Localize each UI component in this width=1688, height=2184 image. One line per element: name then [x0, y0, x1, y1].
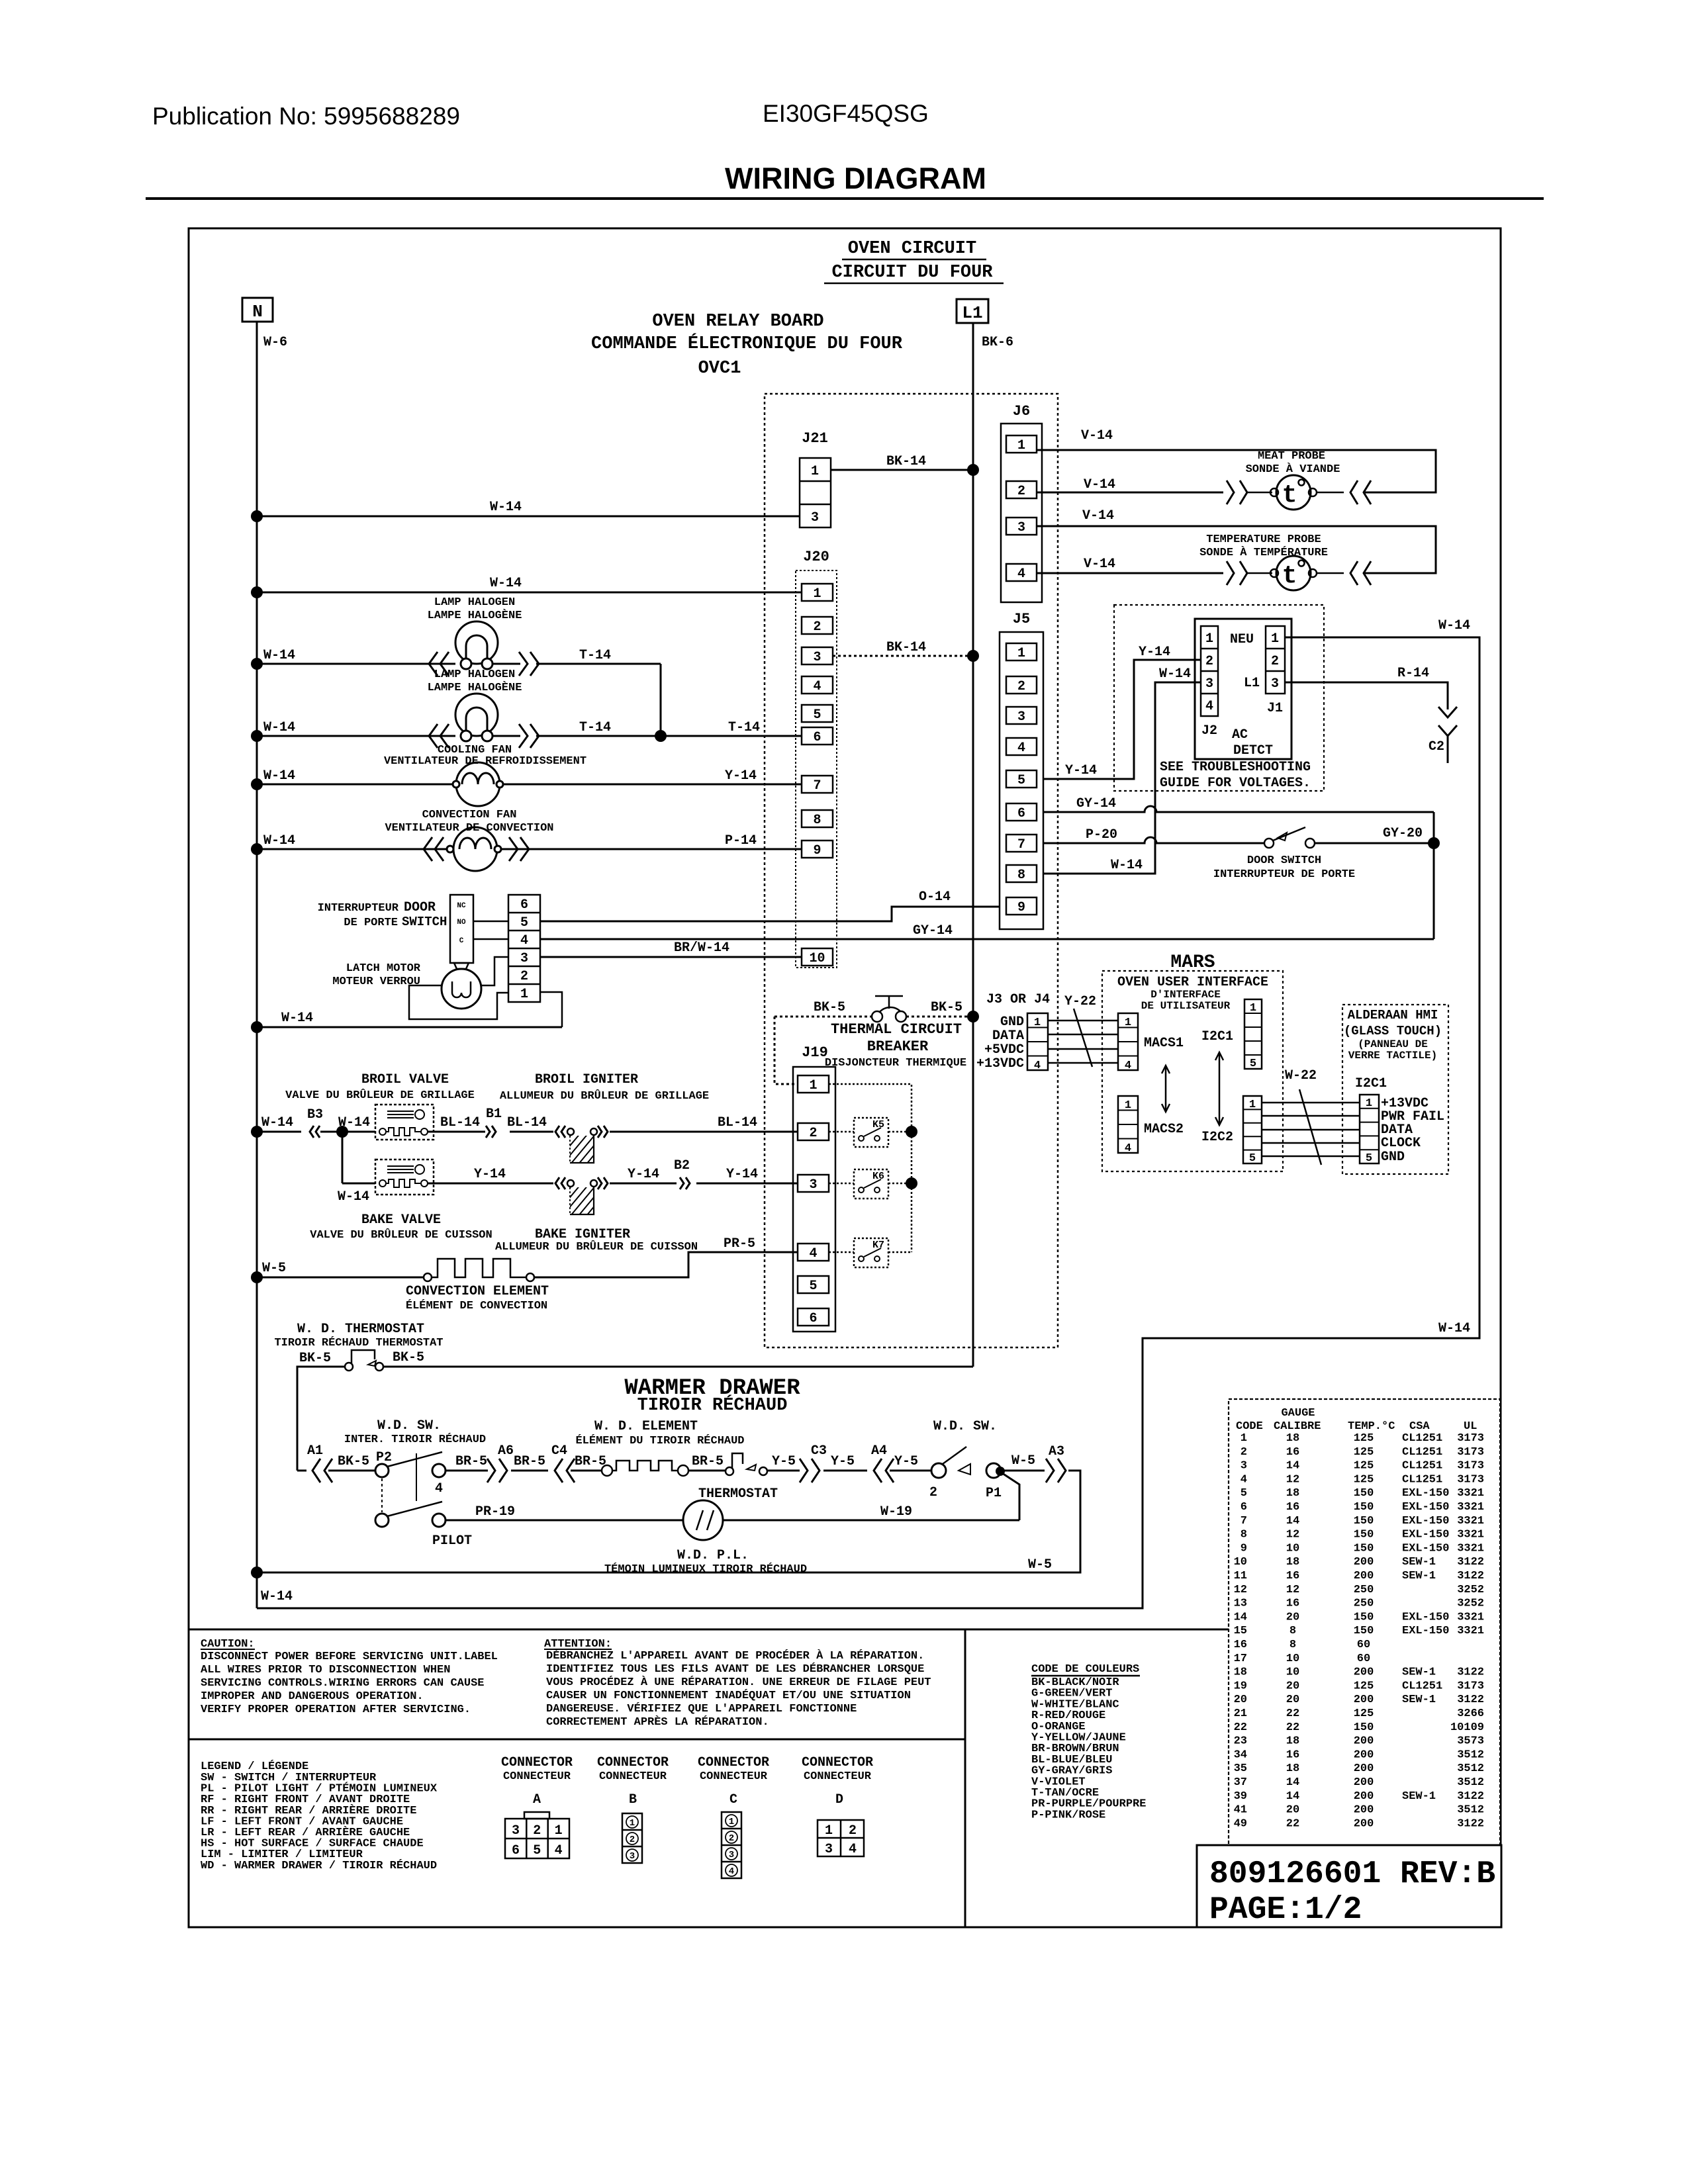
svg-text:J20: J20 [803, 549, 829, 565]
wire W-5 return [257, 1471, 1080, 1572]
svg-text:150: 150 [1354, 1611, 1374, 1623]
svg-text:TÉMOIN LUMINEUX TIROIR RÉCHAUD: TÉMOIN LUMINEUX TIROIR RÉCHAUD [604, 1563, 807, 1576]
svg-text:1: 1 [1249, 1099, 1256, 1111]
wire door switch net vertical [1433, 812, 1435, 939]
connector chevrons temp probe right [1350, 561, 1358, 585]
wire BK-5 thermal breaker right [906, 1016, 973, 1018]
svg-text:GUIDE FOR VOLTAGES.: GUIDE FOR VOLTAGES. [1160, 776, 1311, 791]
svg-text:BAKE VALVE: BAKE VALVE [361, 1212, 441, 1228]
svg-text:OVC1: OVC1 [698, 359, 741, 379]
wire T-14 vertical drop [660, 664, 662, 736]
svg-text:BK-5: BK-5 [814, 1000, 845, 1015]
motor M cooling fan symbol [456, 762, 500, 806]
svg-text:T-14: T-14 [579, 648, 611, 663]
svg-text:125: 125 [1354, 1446, 1374, 1459]
svg-text:CONVECTION FAN: CONVECTION FAN [422, 809, 517, 821]
arrow I2C1 I2C2 [1219, 1054, 1221, 1124]
svg-text:1: 1 [729, 1817, 734, 1827]
svg-text:CONNECTEUR: CONNECTEUR [804, 1770, 872, 1783]
svg-text:A3: A3 [1049, 1444, 1064, 1459]
svg-text:N: N [252, 302, 263, 322]
svg-text:18: 18 [1286, 1735, 1299, 1748]
junction T-14 lamp rows [655, 730, 667, 742]
AC detector board box [1195, 619, 1291, 759]
svg-text:OVEN CIRCUIT: OVEN CIRCUIT [848, 239, 976, 259]
svg-text:THERMOSTAT: THERMOSTAT [698, 1486, 778, 1502]
svg-text:35: 35 [1234, 1762, 1247, 1775]
svg-text:125: 125 [1354, 1460, 1374, 1473]
svg-text:DISCONNECT POWER BEFORE SERVIC: DISCONNECT POWER BEFORE SERVICING UNIT.L… [201, 1651, 498, 1663]
svg-text:2: 2 [929, 1485, 937, 1500]
wire O-14 terminal 5 to J5 pin9 [540, 907, 1000, 921]
svg-text:2: 2 [849, 1823, 857, 1839]
node L1 terminal [957, 299, 988, 323]
svg-text:V-14: V-14 [1084, 477, 1115, 492]
svg-text:VALVE DU BRÛLEUR DE CUISSON: VALVE DU BRÛLEUR DE CUISSON [310, 1228, 492, 1242]
svg-text:15: 15 [1234, 1625, 1247, 1637]
connector chevrons A1 [312, 1459, 320, 1482]
svg-text:SONDE À TEMPÉRATURE: SONDE À TEMPÉRATURE [1199, 546, 1328, 559]
temperature probe sensor symbol [1247, 572, 1272, 574]
svg-text:VALVE DU BRÛLEUR DE GRILLAGE: VALVE DU BRÛLEUR DE GRILLAGE [285, 1089, 475, 1102]
svg-text:39: 39 [1234, 1790, 1247, 1803]
svg-text:5: 5 [809, 1279, 817, 1294]
svg-text:VENTILATEUR DE REFROIDISSEMENT: VENTILATEUR DE REFROIDISSEMENT [384, 755, 586, 768]
svg-text:3573: 3573 [1457, 1735, 1484, 1748]
svg-text:3: 3 [1017, 709, 1025, 725]
wire V-14 J6 pin3 temp probe loop [1037, 526, 1436, 573]
connector I2C1 [1244, 999, 1262, 1069]
gauge table [1229, 1399, 1500, 1853]
wire latch motor to terminal 1 bracket [409, 985, 508, 1019]
svg-text:A: A [533, 1792, 541, 1807]
svg-text:41: 41 [1234, 1804, 1247, 1817]
svg-text:IMPROPER AND DANGEROUS OPERATI: IMPROPER AND DANGEROUS OPERATION. [201, 1690, 424, 1703]
wire V-14 J6 pin4 to temp probe [1037, 572, 1223, 574]
wire BR-5 to WD element [571, 1470, 602, 1472]
svg-text:V-14: V-14 [1081, 428, 1113, 443]
svg-text:150: 150 [1354, 1625, 1374, 1637]
connector chevrons convection right [509, 837, 518, 861]
thermal circuit breaker symbol [872, 1011, 882, 1022]
svg-text:2: 2 [729, 1833, 734, 1844]
svg-text:3: 3 [813, 650, 821, 665]
wire door C to terminal 4 [473, 938, 508, 940]
svg-text:J2: J2 [1201, 723, 1217, 739]
svg-text:SEW-1: SEW-1 [1402, 1666, 1436, 1679]
svg-text:NC: NC [457, 902, 466, 910]
svg-text:14: 14 [1286, 1790, 1299, 1803]
svg-text:CONNECTOR: CONNECTOR [698, 1755, 769, 1770]
J5 pin 1 [1006, 643, 1037, 660]
svg-text:A4: A4 [871, 1443, 887, 1459]
junction BK-5 L1 [967, 1011, 979, 1023]
svg-text:W-14: W-14 [261, 1115, 293, 1130]
connector chevrons meat probe left [1227, 480, 1234, 504]
broil igniter symbol [567, 1128, 574, 1135]
arrow to C2 [1438, 707, 1457, 717]
svg-text:Y-14: Y-14 [628, 1167, 659, 1182]
svg-text:D: D [835, 1792, 843, 1807]
connector chevrons bake igniter right [598, 1177, 602, 1189]
junction J20 pin3 L1 [967, 650, 979, 662]
arrow MACS1 MACS2 [1165, 1067, 1167, 1111]
svg-text:VERRE TACTILE): VERRE TACTILE) [1348, 1050, 1437, 1062]
svg-text:+5VDC: +5VDC [984, 1042, 1024, 1058]
svg-text:J19: J19 [802, 1044, 828, 1061]
svg-text:Y-14: Y-14 [726, 1167, 758, 1182]
svg-text:3512: 3512 [1457, 1762, 1484, 1775]
svg-text:V-14: V-14 [1084, 557, 1115, 572]
svg-text:BK-14: BK-14 [886, 454, 926, 469]
svg-text:6: 6 [1017, 806, 1025, 821]
svg-text:+13VDC: +13VDC [976, 1056, 1024, 1071]
svg-text:150: 150 [1354, 1501, 1374, 1514]
main border frame [189, 228, 1501, 1927]
svg-text:150: 150 [1354, 1721, 1374, 1734]
junction J21-L1 [967, 464, 979, 476]
wire BK-6 L1 vertical [972, 323, 974, 1367]
wire Y-14 bake igniter out [610, 1183, 677, 1185]
svg-text:3122: 3122 [1457, 1817, 1484, 1830]
svg-text:9: 9 [813, 843, 821, 858]
svg-text:B2: B2 [674, 1158, 690, 1173]
svg-text:12: 12 [1234, 1584, 1247, 1596]
svg-text:V-14: V-14 [1082, 508, 1114, 523]
connector A drawing [524, 1812, 549, 1819]
svg-text:ÉLÉMENT DE CONVECTION: ÉLÉMENT DE CONVECTION [406, 1299, 547, 1312]
svg-text:5: 5 [1250, 1058, 1256, 1070]
svg-text:8: 8 [1241, 1529, 1247, 1541]
svg-text:MACS2: MACS2 [1144, 1122, 1184, 1137]
svg-text:SEW-1: SEW-1 [1402, 1790, 1436, 1803]
svg-text:3: 3 [630, 1851, 635, 1862]
svg-text:3: 3 [729, 1850, 734, 1860]
svg-text:EXL-150: EXL-150 [1402, 1625, 1449, 1637]
svg-text:PR-19: PR-19 [475, 1504, 515, 1520]
svg-text:BREAKER: BREAKER [867, 1038, 929, 1055]
svg-text:4: 4 [1125, 1142, 1131, 1155]
svg-text:1: 1 [811, 464, 819, 479]
svg-text:DE UTILISATEUR: DE UTILISATEUR [1141, 1000, 1231, 1012]
svg-text:11: 11 [1234, 1570, 1247, 1582]
svg-text:WIRING DIAGRAM: WIRING DIAGRAM [725, 161, 986, 195]
svg-text:TEMP.°C: TEMP.°C [1348, 1420, 1395, 1433]
divider vertical bottom [964, 1629, 966, 1927]
svg-text:3: 3 [825, 1842, 833, 1857]
connector chevrons A4 [874, 1459, 882, 1482]
svg-text:W-14: W-14 [263, 648, 295, 663]
convection element symbol [424, 1273, 432, 1281]
svg-text:SEW-1: SEW-1 [1402, 1556, 1436, 1569]
connector chevrons A6 [487, 1459, 495, 1482]
svg-text:23: 23 [1234, 1735, 1247, 1748]
svg-text:W-14: W-14 [263, 833, 295, 848]
svg-text:150: 150 [1354, 1515, 1374, 1527]
svg-text:1: 1 [1017, 438, 1025, 453]
slash W-22 bundle [1299, 1089, 1321, 1165]
wire R-14 J1 pin3 to C2 [1285, 682, 1448, 709]
svg-text:J6: J6 [1013, 403, 1030, 420]
svg-text:3321: 3321 [1457, 1501, 1484, 1514]
wire P-20 J5 pin7 with hop to door switch [1043, 837, 1264, 843]
J20 pin 1 [802, 584, 833, 601]
svg-text:BK-5: BK-5 [393, 1350, 424, 1365]
revision box [1197, 1845, 1501, 1927]
connector chevrons C4 [555, 1459, 563, 1482]
svg-text:20: 20 [1286, 1611, 1299, 1623]
wire W-14 bus to J20 pin1 [257, 592, 802, 594]
svg-text:200: 200 [1354, 1666, 1374, 1679]
svg-text:22: 22 [1234, 1721, 1247, 1734]
svg-text:W-14: W-14 [261, 1589, 293, 1604]
svg-text:4: 4 [1241, 1473, 1247, 1486]
wire PR-19 pilot to lamp [445, 1520, 683, 1522]
svg-text:Y-14: Y-14 [474, 1167, 506, 1182]
svg-text:MACS1: MACS1 [1144, 1036, 1184, 1051]
svg-text:I2C1: I2C1 [1201, 1029, 1233, 1044]
WD switch contact P1 [986, 1463, 1001, 1478]
svg-text:2: 2 [520, 969, 528, 984]
svg-text:5: 5 [533, 1843, 541, 1858]
svg-text:6: 6 [1241, 1501, 1247, 1514]
svg-text:8: 8 [1017, 868, 1025, 883]
connector chevrons bake igniter [555, 1177, 559, 1189]
svg-text:OVEN USER INTERFACE: OVEN USER INTERFACE [1117, 975, 1268, 990]
svg-text:4: 4 [809, 1246, 817, 1261]
svg-text:2: 2 [809, 1126, 817, 1141]
svg-text:809126601 REV:B: 809126601 REV:B [1209, 1856, 1495, 1892]
svg-text:16: 16 [1234, 1639, 1247, 1651]
svg-text:VOUS PROCÉDEZ À UNE RÉPARATION: VOUS PROCÉDEZ À UNE RÉPARATION. UNE ERRE… [546, 1676, 931, 1689]
svg-text:8: 8 [1289, 1639, 1296, 1651]
svg-text:W-5: W-5 [262, 1261, 286, 1276]
svg-text:UL: UL [1464, 1420, 1477, 1433]
relay output bus to J19 pin1 [829, 1084, 912, 1252]
svg-text:I2C2: I2C2 [1201, 1130, 1233, 1145]
svg-text:14: 14 [1234, 1611, 1247, 1623]
svg-text:Y-14: Y-14 [1139, 645, 1170, 660]
svg-text:1: 1 [1017, 646, 1025, 661]
svg-text:3122: 3122 [1457, 1666, 1484, 1679]
door switch symbol [1264, 839, 1274, 848]
svg-text:10: 10 [809, 951, 825, 966]
svg-text:60: 60 [1357, 1653, 1370, 1665]
svg-text:EI30GF45QSG: EI30GF45QSG [763, 100, 929, 127]
wire W-14 to bake valve [342, 1183, 375, 1185]
wire GY-20 door switch to net [1315, 842, 1434, 844]
J20 pin 5 [802, 705, 833, 722]
svg-text:4: 4 [1034, 1060, 1041, 1072]
svg-text:CAUSER UN FONCTIONNEMENT INADÉ: CAUSER UN FONCTIONNEMENT INADÉQUAT ET/OU… [546, 1689, 911, 1702]
wire BR-5 element to thermostat [688, 1470, 726, 1472]
svg-text:2: 2 [1017, 484, 1025, 499]
J19 pin 1 [798, 1075, 829, 1093]
svg-text:MARS: MARS [1170, 952, 1215, 973]
svg-text:3: 3 [811, 510, 819, 525]
wire T-14 lamp1 to corner [536, 663, 661, 665]
wire door NO to terminal 5 [473, 921, 508, 923]
svg-text:(GLASS TOUCH): (GLASS TOUCH) [1344, 1024, 1442, 1038]
connector chevrons B1 [486, 1126, 490, 1138]
switch P2 lower [375, 1514, 389, 1527]
J20 pin 2 [802, 617, 833, 634]
svg-text:A6: A6 [498, 1443, 514, 1459]
svg-text:LEGEND / LÉGENDE: LEGEND / LÉGENDE [201, 1760, 308, 1773]
svg-text:Y-14: Y-14 [725, 768, 757, 784]
wire W-19 lamp to P1 [723, 1520, 1019, 1522]
J6 pin 2 [1006, 481, 1037, 498]
wire J19 pin2 to K5 [829, 1131, 854, 1133]
svg-text:INTERRUPTEUR: INTERRUPTEUR [318, 902, 399, 915]
svg-text:1: 1 [630, 1818, 635, 1829]
svg-text:DATA: DATA [992, 1028, 1024, 1044]
wire lamp1 right [492, 663, 520, 665]
svg-text:4: 4 [520, 933, 528, 948]
svg-text:3173: 3173 [1457, 1680, 1484, 1692]
latch motor symbol [454, 963, 469, 969]
svg-text:7: 7 [1241, 1515, 1247, 1527]
svg-text:4: 4 [849, 1842, 857, 1857]
svg-text:W-14: W-14 [490, 576, 522, 591]
svg-text:125: 125 [1354, 1432, 1374, 1445]
connector chevrons A3 [1046, 1459, 1054, 1482]
svg-text:1: 1 [1125, 1099, 1131, 1112]
svg-text:ALL WIRES PRIOR TO DISCONNECTI: ALL WIRES PRIOR TO DISCONNECTION WHEN [201, 1664, 450, 1676]
svg-text:18: 18 [1286, 1432, 1299, 1445]
WD thermostat symbol [345, 1363, 353, 1371]
wire K7 to relay bus [888, 1251, 912, 1253]
svg-text:P2: P2 [376, 1450, 392, 1465]
wire Y-5 thermostat out [767, 1470, 800, 1472]
svg-text:INTERRUPTEUR DE PORTE: INTERRUPTEUR DE PORTE [1213, 868, 1355, 881]
svg-text:2: 2 [1205, 654, 1213, 669]
junction K5 bus [906, 1126, 917, 1138]
svg-text:W-14: W-14 [281, 1011, 313, 1026]
svg-text:BROIL IGNITER: BROIL IGNITER [535, 1072, 638, 1087]
svg-text:22: 22 [1286, 1721, 1299, 1734]
svg-text:CL1251: CL1251 [1402, 1432, 1442, 1445]
svg-text:J5: J5 [1013, 611, 1030, 627]
svg-text:12: 12 [1286, 1529, 1299, 1541]
connector chevrons lamp2 left [429, 724, 438, 748]
junction bus J20 pin1 [251, 586, 263, 598]
svg-text:BK-5: BK-5 [299, 1351, 331, 1366]
door switch terminal strip [508, 895, 540, 1002]
svg-text:19: 19 [1234, 1680, 1247, 1692]
svg-text:Y-22: Y-22 [1064, 994, 1096, 1009]
svg-text:7: 7 [813, 778, 821, 794]
svg-text:MEAT PROBE: MEAT PROBE [1258, 450, 1325, 463]
switch P2 upper [375, 1464, 389, 1477]
svg-text:125: 125 [1354, 1680, 1374, 1692]
svg-text:GY-14: GY-14 [913, 923, 953, 938]
svg-text:3321: 3321 [1457, 1487, 1484, 1500]
svg-text:A1: A1 [307, 1443, 323, 1459]
svg-text:GND: GND [1000, 1015, 1024, 1030]
svg-text:TEMPERATURE PROBE: TEMPERATURE PROBE [1206, 533, 1321, 546]
connector chevrons convection left [424, 837, 432, 861]
svg-text:W-14: W-14 [1159, 666, 1191, 682]
separator legend section [189, 1739, 965, 1741]
svg-text:W.D. SW.: W.D. SW. [377, 1418, 441, 1433]
J19 pin 3 [798, 1175, 829, 1192]
svg-text:2: 2 [630, 1835, 635, 1845]
J20 pin 6 [802, 727, 833, 745]
wire V-14 J6 pin1 meat probe loop [1037, 450, 1436, 492]
svg-text:BROIL VALVE: BROIL VALVE [361, 1072, 449, 1087]
svg-text:4: 4 [1017, 741, 1025, 756]
svg-text:10: 10 [1234, 1556, 1247, 1569]
svg-text:BL-14: BL-14 [507, 1115, 547, 1130]
svg-text:LAMPE HALOGÈNE: LAMPE HALOGÈNE [428, 681, 522, 694]
svg-text:18: 18 [1286, 1556, 1299, 1569]
connector chevrons B2 [680, 1177, 684, 1189]
J20 pin 10 [802, 948, 833, 966]
svg-text:LAMP HALOGEN: LAMP HALOGEN [434, 668, 515, 681]
svg-text:SONDE À VIANDE: SONDE À VIANDE [1246, 463, 1340, 476]
connector chevrons broil igniter [555, 1126, 559, 1138]
junction bus broil [251, 1126, 263, 1138]
wire W-5 to A3 [1004, 1470, 1045, 1472]
wire GY-14 terminal 4 to door switch net [540, 938, 1434, 940]
junction bus J21 [251, 510, 263, 522]
wire BL-14 broil igniter to J19 pin2 [610, 1131, 798, 1133]
svg-text:2: 2 [1017, 679, 1025, 694]
svg-text:INTER. TIROIR RÉCHAUD: INTER. TIROIR RÉCHAUD [344, 1433, 486, 1446]
svg-text:BK-5: BK-5 [931, 1000, 962, 1015]
WD element symbol [602, 1465, 612, 1476]
meat probe sensor symbol [1247, 492, 1272, 494]
svg-text:J1: J1 [1267, 701, 1283, 716]
J20 pin 8 [802, 810, 833, 827]
svg-text:3173: 3173 [1457, 1446, 1484, 1459]
svg-text:B: B [629, 1792, 637, 1807]
svg-text:VERIFY PROPER OPERATION AFTER: VERIFY PROPER OPERATION AFTER SERVICING. [201, 1704, 471, 1716]
svg-text:CL1251: CL1251 [1402, 1473, 1442, 1486]
svg-text:T-14: T-14 [728, 720, 760, 735]
svg-text:20: 20 [1286, 1680, 1299, 1692]
wire W-14 lamp2 [257, 735, 455, 737]
svg-text:CONNECTEUR: CONNECTEUR [700, 1770, 768, 1783]
wire lamp2 right [492, 735, 520, 737]
svg-text:150: 150 [1354, 1542, 1374, 1555]
svg-text:C4: C4 [551, 1443, 567, 1459]
AC detector dashed outline [1114, 605, 1324, 791]
wire Y-5 connector pair [823, 1470, 867, 1472]
wire W-14 broil from bus [257, 1131, 301, 1133]
svg-text:3: 3 [1205, 676, 1213, 692]
wire J19 pin4 to K7 [829, 1251, 854, 1253]
svg-text:22: 22 [1286, 1707, 1299, 1720]
svg-text:W-19: W-19 [880, 1504, 912, 1520]
svg-text:125: 125 [1354, 1473, 1374, 1486]
svg-text:W-14: W-14 [338, 1189, 369, 1205]
junction bus lamp1 [251, 658, 263, 670]
svg-text:D'INTERFACE: D'INTERFACE [1150, 989, 1221, 1001]
connector chevrons broil igniter right [598, 1126, 602, 1138]
svg-text:W-14: W-14 [1438, 618, 1470, 633]
svg-text:10: 10 [1286, 1653, 1299, 1665]
wire K6 to relay bus [888, 1183, 912, 1185]
wire W-14 NEU return [257, 637, 1479, 1608]
J20 pin 4 [802, 676, 833, 694]
svg-text:21: 21 [1234, 1707, 1247, 1720]
wire BK-5 to P2 [328, 1470, 375, 1472]
svg-text:DETCT: DETCT [1233, 743, 1273, 758]
svg-text:2: 2 [533, 1823, 541, 1839]
svg-text:NO: NO [457, 919, 466, 927]
